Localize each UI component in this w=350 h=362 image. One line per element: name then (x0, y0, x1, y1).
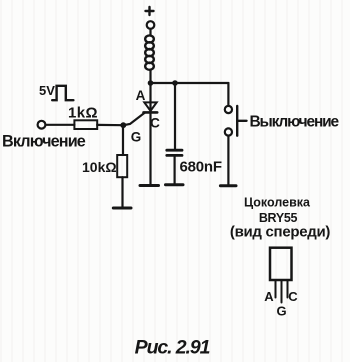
svg-text:G: G (131, 130, 142, 145)
plus supply symbol (146, 7, 154, 15)
resistor R1 1k box (74, 120, 97, 129)
wire capacitor bottom (174, 156, 176, 184)
switch S1 actuator tick (237, 120, 246, 122)
svg-text:C: C (150, 116, 160, 131)
5V pulse symbol (52, 86, 73, 100)
resistor R2 10k box (117, 155, 127, 177)
svg-text:Рис. 2.91: Рис. 2.91 (135, 337, 210, 359)
ground (thyristor cathode) (140, 184, 159, 187)
BRY55 package body (270, 248, 292, 280)
svg-text:(вид спереди): (вид спереди) (230, 224, 331, 241)
svg-text:C: C (288, 289, 298, 304)
wire resistor to gate node (97, 124, 123, 126)
wire R2 to ground (121, 177, 123, 207)
svg-text:A: A (264, 289, 274, 304)
inductor L1 (145, 35, 154, 69)
capacitor C1 plates (167, 149, 182, 152)
thyristor D1 triangle (144, 102, 156, 111)
ground (capacitor) (166, 183, 184, 186)
switch S1 button bar (236, 106, 238, 136)
svg-text:1kΩ: 1kΩ (68, 105, 98, 122)
svg-text:5V: 5V (39, 83, 55, 98)
svg-text:680nF: 680nF (180, 159, 222, 176)
svg-text:G: G (276, 304, 286, 319)
node rail-capacitor junction (172, 80, 178, 86)
wire input to resistor (46, 124, 75, 126)
svg-text:A: A (136, 88, 146, 103)
pin A leg (275, 280, 277, 298)
supply terminal (147, 21, 155, 29)
svg-text:Включение: Включение (2, 133, 86, 151)
svg-text:Выключение: Выключение (250, 113, 340, 130)
thyristor cathode bar (144, 111, 158, 114)
wire terminal to coil (149, 29, 151, 36)
node gate junction (120, 122, 126, 128)
wire top rail (151, 82, 229, 84)
wire capacitor top (174, 83, 176, 150)
switch S1 contact circles (225, 106, 232, 113)
ground (R2) (113, 207, 131, 210)
wire switch to ground (227, 136, 229, 185)
node rail-thyristor junction (148, 80, 154, 86)
wire thyristor vertical (anode to cathode lead) (149, 83, 151, 184)
wire coil to rail (149, 70, 151, 84)
pin C leg (287, 280, 289, 298)
wire gate node down to R2 (122, 125, 124, 155)
ground (switch) (220, 184, 236, 187)
wire gate diagonal (123, 113, 145, 126)
svg-text:10kΩ: 10kΩ (82, 159, 117, 175)
wire switch drop from rail (227, 83, 229, 106)
input terminal circle (38, 121, 46, 129)
pin G leg (281, 280, 283, 303)
svg-text:Цоколевка: Цоколевка (244, 196, 311, 210)
